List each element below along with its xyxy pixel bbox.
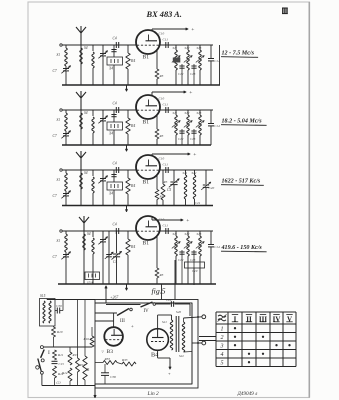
wire bus to box 2 bbox=[174, 284, 176, 300]
svg-text:+: + bbox=[193, 152, 196, 158]
coil S8 row2 bbox=[92, 110, 94, 116]
resistor B bbox=[84, 300, 86, 357]
wire antenna drop row1 bbox=[80, 45, 82, 85]
svg-text:C10: C10 bbox=[159, 97, 165, 101]
plate lead arrow row3 bbox=[151, 154, 153, 156]
terminal row2 bbox=[60, 109, 62, 111]
svg-text:+: + bbox=[186, 218, 189, 224]
svg-text:S4: S4 bbox=[87, 232, 91, 236]
svg-text:2: 2 bbox=[221, 335, 224, 341]
antenna row4 bbox=[83, 223, 85, 231]
capacitor C13 row4 bbox=[193, 250, 195, 284]
coil S4 row3 bbox=[80, 173, 83, 189]
svg-text:S1: S1 bbox=[57, 239, 61, 243]
padder X4 row1 bbox=[113, 45, 115, 57]
capacitor C13 row2 bbox=[193, 129, 195, 145]
wire switch row bbox=[43, 346, 92, 348]
wire screen row4 bbox=[160, 230, 213, 232]
antenna row3 bbox=[80, 158, 82, 170]
svg-text:B1: B1 bbox=[143, 241, 150, 247]
trimmer C7 row1 bbox=[65, 66, 67, 68]
svg-text:C11: C11 bbox=[163, 163, 169, 167]
svg-text:C4: C4 bbox=[113, 223, 117, 227]
svg-text:BX 483 A.: BX 483 A. bbox=[146, 10, 182, 19]
resistor R12 bbox=[53, 366, 57, 378]
wire grid feed row1 bbox=[62, 44, 136, 46]
svg-text:3: 3 bbox=[220, 343, 224, 349]
svg-text:S7/4: S7/4 bbox=[87, 281, 93, 285]
coil S11 row1 bbox=[175, 45, 177, 50]
svg-text:S4: S4 bbox=[84, 111, 88, 115]
svg-text:1: 1 bbox=[221, 326, 224, 332]
resistor R4 row3 bbox=[127, 170, 129, 178]
coil S1 row2 bbox=[65, 110, 67, 113]
resistor R5 row3 bbox=[162, 170, 164, 184]
svg-text:C30: C30 bbox=[56, 304, 62, 308]
coil S8 row4 bbox=[92, 231, 94, 237]
tube B1 row1 bbox=[136, 30, 160, 54]
coil S12 row3 bbox=[194, 170, 196, 175]
tube B4 bbox=[147, 329, 169, 351]
resistor R3 row1 bbox=[156, 50, 158, 69]
svg-text:R3: R3 bbox=[159, 134, 164, 138]
svg-text:C19: C19 bbox=[192, 269, 198, 273]
padder X4 row2 bbox=[113, 110, 115, 122]
tube B1 row4 bbox=[136, 216, 160, 240]
terminal row1 bbox=[60, 44, 62, 46]
varcap C5 row3 bbox=[173, 170, 175, 181]
wire grid feed row4 bbox=[62, 230, 136, 232]
svg-text:R33: R33 bbox=[104, 357, 111, 361]
wire antenna drop row2 bbox=[80, 110, 82, 145]
svg-text:C20: C20 bbox=[209, 186, 215, 190]
svg-text:C21: C21 bbox=[195, 201, 201, 205]
wire antenna drop row4 bbox=[83, 231, 85, 284]
ground arrow row2 bbox=[126, 145, 128, 151]
svg-text:X4: X4 bbox=[108, 67, 113, 71]
svg-text:R14: R14 bbox=[61, 371, 68, 375]
varcap C9 row3 bbox=[102, 170, 104, 178]
svg-text:C13: C13 bbox=[190, 137, 196, 141]
svg-text:S11: S11 bbox=[173, 232, 178, 236]
wire bus to box 1 bbox=[161, 284, 163, 300]
svg-text:B1: B1 bbox=[143, 55, 150, 61]
tube B1 row2 bbox=[136, 95, 160, 119]
trimmer C3 row4 bbox=[108, 231, 110, 254]
wire grid feed row2 bbox=[62, 109, 136, 111]
svg-text:S12: S12 bbox=[185, 46, 190, 50]
varcap C9 row1 bbox=[102, 45, 104, 53]
svg-text:Д49049 л: Д49049 л bbox=[237, 390, 259, 397]
svg-text:R4: R4 bbox=[130, 245, 135, 249]
switch II lever bbox=[38, 359, 41, 372]
trimmer C7 row2 bbox=[65, 131, 67, 133]
svg-text:+: + bbox=[131, 325, 134, 330]
capacitor C11 row1 bbox=[165, 42, 167, 48]
coil S8 row3 bbox=[92, 170, 94, 176]
coil S1 row3 bbox=[65, 170, 67, 173]
svg-text:C10: C10 bbox=[159, 157, 165, 161]
svg-text:S4: S4 bbox=[84, 46, 88, 50]
wire to table 1 bbox=[199, 336, 216, 338]
svg-text:R3: R3 bbox=[159, 273, 164, 277]
coil S12 row4 bbox=[187, 231, 189, 236]
svg-text:S12: S12 bbox=[185, 111, 190, 115]
capacitor C13 row1 bbox=[193, 64, 195, 85]
ground bus row1 bbox=[62, 84, 220, 86]
coil S11 row2 bbox=[175, 110, 177, 115]
svg-text:III: III bbox=[120, 319, 125, 324]
svg-text:S13: S13 bbox=[197, 232, 202, 236]
svg-text:R16: R16 bbox=[83, 337, 90, 341]
svg-text:X4: X4 bbox=[108, 192, 113, 196]
svg-text:R3: R3 bbox=[159, 195, 164, 199]
capacitor C12 row1 bbox=[181, 64, 183, 85]
output terminal 2 bbox=[184, 351, 193, 354]
svg-text:C12: C12 bbox=[178, 137, 184, 141]
svg-text:C11: C11 bbox=[163, 224, 169, 228]
band table bbox=[215, 312, 217, 367]
svg-text:C14: C14 bbox=[214, 245, 220, 249]
svg-text:C4: C4 bbox=[113, 260, 117, 264]
coil S11 row3 bbox=[185, 170, 187, 175]
svg-text:S15: S15 bbox=[40, 294, 46, 298]
svg-text:C13: C13 bbox=[190, 258, 196, 262]
svg-text:S22: S22 bbox=[179, 354, 184, 358]
resistor R4 row4 bbox=[127, 231, 129, 239]
capacitor C29 bbox=[156, 303, 171, 305]
capacitor C14 row4 bbox=[210, 231, 212, 244]
resistor R16 bbox=[91, 327, 93, 336]
B4 cathode ground bbox=[157, 350, 159, 358]
resistor R34 bbox=[122, 362, 136, 366]
svg-text:X4: X4 bbox=[108, 132, 113, 136]
coil S11 row4 bbox=[175, 231, 177, 236]
svg-text:S20: S20 bbox=[176, 310, 181, 314]
coil S1 row4 bbox=[65, 231, 67, 234]
contact node 2 bbox=[41, 371, 44, 374]
coil S1 row1 bbox=[65, 45, 67, 48]
capacitor C11 row2 bbox=[165, 107, 167, 113]
svg-text:18.2 - 5.04 Mc/s: 18.2 - 5.04 Mc/s bbox=[222, 119, 263, 125]
tube B1 row3 bbox=[136, 155, 160, 179]
padder X4 row3 bbox=[113, 170, 115, 182]
page number III bbox=[282, 8, 284, 13]
wire B4 plate bbox=[157, 315, 159, 329]
svg-text:fig.5: fig.5 bbox=[152, 287, 166, 296]
terminal row3 bbox=[60, 169, 62, 171]
capacitor C30 bbox=[56, 308, 58, 314]
capacitor C15 bbox=[52, 360, 58, 362]
svg-text:Lin 2: Lin 2 bbox=[147, 391, 160, 397]
coil S12 row2 bbox=[187, 110, 189, 115]
capacitor C11 row4 bbox=[165, 228, 167, 234]
svg-text:I: I bbox=[48, 350, 50, 356]
wire bottom left bbox=[42, 385, 95, 387]
ground bus row4 bbox=[58, 283, 216, 285]
capacitor block C12 row1 bbox=[173, 58, 181, 63]
svg-text:C10: C10 bbox=[159, 218, 165, 222]
ground lead out bbox=[94, 384, 96, 398]
svg-text:+267: +267 bbox=[110, 296, 119, 300]
svg-text:S4: S4 bbox=[84, 171, 88, 175]
svg-text:+: + bbox=[189, 90, 192, 96]
wire screen row2 bbox=[160, 109, 213, 111]
svg-text:C29: C29 bbox=[166, 298, 172, 302]
switch III bbox=[95, 312, 117, 314]
svg-text:C4: C4 bbox=[113, 102, 117, 106]
svg-text:R4: R4 bbox=[130, 124, 135, 128]
wire end row1 bbox=[219, 45, 221, 85]
wire screen row3 bbox=[160, 169, 213, 171]
svg-text:C11: C11 bbox=[163, 103, 169, 107]
svg-text:R4: R4 bbox=[130, 184, 135, 188]
resistor R3 row2 bbox=[156, 115, 158, 129]
svg-text:IV: IV bbox=[144, 309, 150, 314]
svg-text:C12: C12 bbox=[178, 72, 184, 76]
svg-text:4: 4 bbox=[221, 351, 224, 358]
svg-text:R3: R3 bbox=[159, 74, 164, 78]
capacitor C38 bbox=[104, 364, 106, 373]
svg-text:C7: C7 bbox=[53, 255, 57, 259]
coil S8 row1 bbox=[92, 45, 94, 51]
svg-text:S1: S1 bbox=[57, 178, 61, 182]
svg-text:R4: R4 bbox=[130, 59, 135, 63]
switch IV bbox=[106, 304, 141, 306]
svg-text:C12: C12 bbox=[178, 258, 184, 262]
tube B3 bbox=[113, 313, 115, 327]
resistor R4 row1 bbox=[127, 45, 129, 53]
svg-text:S12: S12 bbox=[185, 232, 190, 236]
terminal row4 bbox=[60, 230, 62, 232]
ground bus row2 bbox=[62, 144, 211, 146]
svg-text:C14: C14 bbox=[214, 59, 220, 63]
plate lead arrow row1 bbox=[151, 29, 153, 31]
resistor R15 bbox=[69, 347, 71, 352]
svg-text:R5: R5 bbox=[163, 180, 168, 184]
varcap C20 row3 bbox=[205, 170, 207, 184]
ground arrow row1 bbox=[126, 85, 128, 91]
antenna row1 bbox=[80, 33, 82, 45]
svg-text:B1: B1 bbox=[143, 180, 150, 186]
svg-text:+: + bbox=[191, 27, 194, 33]
svg-text:C13: C13 bbox=[190, 72, 196, 76]
coil S4 row2 bbox=[80, 113, 83, 129]
coil S12 row1 bbox=[187, 45, 189, 50]
transformer S20 S21 bbox=[170, 320, 173, 350]
svg-text:C14: C14 bbox=[214, 124, 220, 128]
resistor R11 bbox=[53, 350, 57, 360]
svg-text:C15: C15 bbox=[59, 362, 65, 366]
ground arrow row3 bbox=[126, 206, 128, 212]
capacitor C11 row3 bbox=[165, 167, 167, 173]
ground bus row3 bbox=[62, 205, 213, 207]
svg-text:C5: C5 bbox=[167, 188, 171, 192]
trimmer C7 row4 bbox=[65, 252, 67, 254]
resistor R4 row2 bbox=[127, 110, 129, 118]
screen box inner bbox=[95, 303, 192, 384]
output box C19 row4 bbox=[185, 262, 205, 268]
svg-text:B3: B3 bbox=[107, 349, 114, 355]
svg-text:C7: C7 bbox=[53, 69, 57, 73]
svg-text:C4: C4 bbox=[113, 162, 117, 166]
capacitor C14 row1 bbox=[210, 45, 212, 58]
capacitor C14 row2 bbox=[210, 110, 212, 123]
resistor R3 row4 bbox=[156, 236, 158, 268]
coil S4 row4 bbox=[83, 234, 86, 250]
svg-text:419.6 - 150 Kc/s: 419.6 - 150 Kc/s bbox=[221, 245, 263, 251]
svg-text:S11: S11 bbox=[173, 111, 178, 115]
ground arrow row4 bbox=[126, 284, 128, 290]
svg-text:R11: R11 bbox=[57, 353, 64, 357]
svg-text:C4: C4 bbox=[113, 37, 117, 41]
svg-text:+: + bbox=[168, 371, 171, 376]
svg-text:S1: S1 bbox=[57, 53, 61, 57]
svg-text:12 - 7.5 Mc/s: 12 - 7.5 Mc/s bbox=[222, 51, 255, 57]
svg-text:C11: C11 bbox=[163, 38, 169, 42]
svg-text:S21: S21 bbox=[162, 320, 167, 324]
wire top left bbox=[46, 299, 48, 300]
svg-text:5: 5 bbox=[221, 360, 224, 366]
switch I bbox=[40, 346, 43, 349]
resistor R10 bbox=[52, 327, 56, 337]
wire screen row1 bbox=[160, 44, 213, 46]
coil S13 row2 bbox=[199, 110, 201, 115]
svg-text:S13: S13 bbox=[197, 46, 202, 50]
svg-text:S11: S11 bbox=[173, 46, 178, 50]
svg-text:B1: B1 bbox=[143, 120, 150, 126]
coil S13 row1 bbox=[199, 45, 201, 50]
svg-text:C7: C7 bbox=[53, 194, 57, 198]
supply lead +267 bbox=[105, 286, 107, 303]
wire to table 2 bbox=[199, 340, 216, 342]
svg-text:S11: S11 bbox=[183, 171, 188, 175]
resistor R13 bbox=[77, 300, 79, 359]
output terminal 1 bbox=[183, 318, 185, 322]
resistor R3 row3 bbox=[156, 175, 158, 190]
antenna row2 bbox=[80, 98, 82, 110]
svg-text:R10: R10 bbox=[56, 330, 63, 334]
coil S4 row1 bbox=[80, 48, 83, 64]
wire grid feed row3 bbox=[62, 169, 136, 171]
svg-text:R33: R33 bbox=[121, 358, 128, 362]
resistor R14 bbox=[68, 368, 72, 381]
table dots bbox=[234, 327, 236, 329]
svg-text:S1: S1 bbox=[57, 118, 61, 122]
resistor R33 bbox=[103, 361, 117, 365]
plate lead arrow row2 bbox=[151, 92, 153, 96]
capacitor C12 row2 bbox=[181, 129, 183, 145]
varcap C4 row4 bbox=[116, 231, 118, 253]
contact node bbox=[36, 366, 39, 369]
svg-text:C38: C38 bbox=[110, 375, 116, 379]
capacitor C12 row4 bbox=[181, 250, 183, 284]
filter box S7/4 row4 bbox=[85, 272, 100, 280]
plate lead arrow row4 bbox=[151, 217, 153, 220]
varcap C9 row4 bbox=[102, 231, 104, 239]
trimmer C7 row3 bbox=[65, 191, 67, 193]
wire antenna drop row3 bbox=[80, 170, 82, 206]
coil S15 bbox=[40, 299, 56, 327]
svg-text:S13: S13 bbox=[197, 111, 202, 115]
table header wave symbol bbox=[218, 315, 226, 317]
coil S13 row4 bbox=[199, 231, 201, 236]
svg-text:B4: B4 bbox=[151, 352, 158, 359]
svg-text:C7: C7 bbox=[53, 134, 57, 138]
varcap C9 row2 bbox=[102, 110, 104, 118]
svg-text:1622 - 517 Kc/s: 1622 - 517 Kc/s bbox=[222, 179, 261, 185]
screen box outer bbox=[95, 300, 198, 389]
svg-text:C10: C10 bbox=[159, 32, 165, 36]
svg-text:S12: S12 bbox=[192, 171, 197, 175]
